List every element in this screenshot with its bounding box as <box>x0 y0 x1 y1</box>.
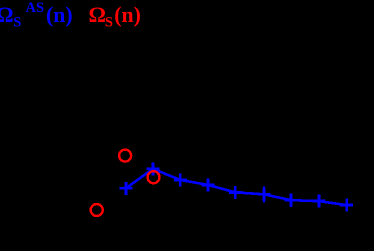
plus marker 8 <box>312 195 325 208</box>
plus marker 1 <box>119 182 132 195</box>
errorbar point 3 <box>179 175 181 187</box>
errorbar point 2 <box>152 163 154 175</box>
blue plus markers <box>119 162 353 211</box>
svg-text:Ω: Ω <box>89 3 106 27</box>
blue error bars <box>126 163 347 211</box>
plus marker 4 <box>202 178 215 191</box>
label: red series key Omega_S(n) <box>89 3 141 30</box>
svg-text:(n): (n) <box>114 3 141 27</box>
errorbar point 1 <box>125 182 127 195</box>
label: blue series key Omega_S^AS(n) <box>0 0 73 31</box>
svg-text:AS: AS <box>26 0 45 16</box>
plus marker 7 <box>285 194 298 207</box>
red circle marker A <box>119 150 131 162</box>
svg-text:(n): (n) <box>46 3 73 27</box>
plus marker 6 <box>257 188 270 201</box>
errorbar point 6 <box>263 187 265 203</box>
plus marker 2 <box>146 162 159 175</box>
errorbar point 9 <box>346 198 348 211</box>
svg-text:S: S <box>105 15 113 31</box>
errorbar point 7 <box>290 194 292 207</box>
blue data line <box>126 169 347 205</box>
plus marker 5 <box>229 186 242 199</box>
svg-text:Ω: Ω <box>0 3 14 27</box>
errorbar point 4 <box>207 180 209 192</box>
errorbar point 8 <box>318 195 320 208</box>
svg-text:S: S <box>13 15 21 31</box>
plus marker 9 <box>340 199 353 212</box>
plus marker 3 <box>174 174 187 187</box>
errorbar point 5 <box>234 186 236 199</box>
red circle marker C <box>148 171 160 183</box>
red circle marker B <box>91 204 103 216</box>
